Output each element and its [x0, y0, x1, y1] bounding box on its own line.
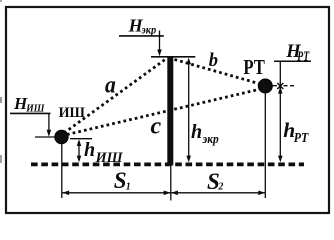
extension line below ИШ down to S dimension	[61, 144, 63, 199]
up arrowhead below x mark	[278, 87, 283, 94]
dimension line h_экр	[188, 60, 190, 160]
screen top tick line	[151, 56, 195, 58]
svg-text:h: h	[191, 121, 202, 143]
tick at source height, right of circle	[70, 138, 92, 140]
svg-text:a: a	[105, 73, 116, 99]
svg-text:РТ: РТ	[294, 130, 309, 145]
noise source point ИШ (filled circle)	[55, 130, 68, 143]
dimension line S2	[171, 192, 266, 194]
extension line below screen to S dimension	[170, 166, 172, 201]
dotted ray c: source to receiver (direct)	[67, 90, 259, 135]
svg-text:1: 1	[126, 181, 131, 192]
tick at source height, left of circle	[35, 136, 55, 138]
svg-text:экр: экр	[141, 22, 157, 36]
x mark at receiver level	[277, 83, 283, 89]
svg-text:h: h	[84, 139, 95, 161]
svg-text:b: b	[209, 51, 218, 71]
receiver point РТ (filled circle)	[258, 79, 272, 93]
extension line below РТ to S dimension	[264, 93, 266, 198]
svg-text:S: S	[114, 168, 127, 193]
svg-text:2: 2	[217, 181, 223, 192]
pointer arrow from Н_ИШ label down to source level	[48, 113, 50, 134]
dimension h_ИШ double arrow	[78, 142, 80, 161]
svg-text:c: c	[151, 114, 162, 140]
tick from РТ circle to level mark	[271, 85, 277, 87]
dotted ray b: screen top to receiver	[175, 60, 261, 85]
dotted ray a: source to screen top	[64, 59, 167, 134]
screen (экран) thick bar	[167, 57, 173, 166]
scan artifact marks on left edge	[0, 97, 2, 103]
dimension line h_РТ from label down to ground	[279, 61, 281, 160]
svg-text:РТ: РТ	[297, 49, 310, 64]
svg-text:экр: экр	[202, 132, 219, 146]
pointer arrow from Н_экр down to screen top	[159, 31, 161, 54]
down arrowhead at ground	[278, 156, 283, 163]
dashes right of level mark	[284, 85, 295, 87]
svg-text:ИШ: ИШ	[95, 150, 124, 166]
svg-text:ИШ: ИШ	[59, 105, 85, 121]
ground dashed line	[31, 162, 304, 166]
dimension line S1	[62, 192, 171, 194]
svg-text:РТ: РТ	[243, 55, 265, 79]
